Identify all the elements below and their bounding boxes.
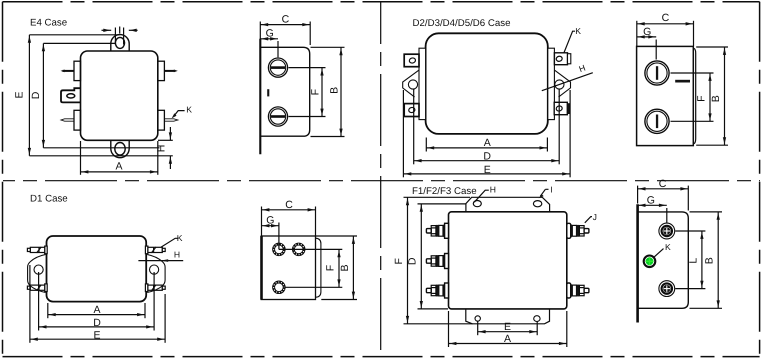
spade terminal top-right (554, 53, 567, 65)
F top flange hole H (473, 201, 481, 207)
right flange hole (555, 80, 564, 89)
F side stud bottom (659, 281, 675, 297)
E extension lines D case (402, 90, 404, 177)
C extension lines (259, 22, 261, 40)
side body outline (693, 48, 695, 144)
svg-text:F1/F2/F3 Case: F1/F2/F3 Case (412, 186, 477, 197)
svg-text:D: D (407, 257, 419, 265)
F side stud top (659, 223, 675, 239)
F bottom flange hole right (534, 316, 540, 322)
B extension lines F side (690, 211, 723, 213)
A extension lines (80, 141, 82, 175)
dimension L F side (701, 231, 703, 289)
D1 right flange (147, 255, 165, 293)
B extension lines (311, 46, 345, 48)
H leader D case (542, 73, 593, 91)
J leader F case (585, 217, 592, 223)
dimension F D1 side (338, 249, 340, 287)
right flange strip (548, 48, 555, 119)
F extension lines D side (671, 72, 714, 74)
dimension H arrows (169, 127, 171, 140)
D1 terminal top-left (27, 246, 47, 254)
dimension D D case (414, 160, 560, 162)
spade terminal bottom-left (404, 104, 419, 117)
extension line E bottom (29, 155, 172, 157)
svg-text:H: H (155, 145, 167, 153)
C extension lines D1 side (261, 207, 263, 236)
dimension F D side (709, 73, 711, 121)
E4 spade connector middle-left (61, 88, 81, 102)
D1 side hole 2 (292, 243, 305, 256)
extension line E top (29, 34, 119, 36)
K leader D case (564, 31, 575, 53)
pin top-right (164, 70, 175, 72)
B extension lines D side (696, 46, 728, 48)
svg-text:B: B (704, 257, 716, 264)
dimension B D side (724, 47, 726, 145)
dimension F F case (407, 197, 409, 323)
C extension lines D side (636, 21, 638, 46)
I leader F case (540, 189, 548, 196)
D1 terminal bottom-left (27, 284, 47, 292)
E extension lines F case (477, 322, 479, 336)
dimension C D side (637, 23, 694, 25)
svg-text:D: D (30, 91, 42, 99)
svg-text:F: F (696, 95, 708, 101)
svg-text:A: A (504, 333, 511, 345)
dimension D F case (420, 204, 422, 309)
dimension G D1 side (262, 225, 279, 227)
E4 terminal top-right (158, 61, 165, 80)
dimension E D case (403, 173, 570, 175)
D extension lines D1 (38, 272, 40, 331)
svg-text:K: K (177, 233, 183, 243)
dimension D D1 (39, 326, 155, 328)
dimension B F side (717, 212, 719, 308)
bolt stud right 290.5 (567, 283, 589, 298)
F side body (638, 212, 689, 308)
D1 side plate (261, 236, 315, 300)
D1 right flange hole (150, 265, 159, 274)
svg-text:C: C (662, 12, 670, 24)
G extension line (277, 41, 279, 57)
bolt stud left 290.5 (426, 283, 448, 298)
G extension line D side (655, 40, 657, 60)
right flange tab (555, 70, 571, 97)
bolt stud right 230.8 (567, 223, 589, 238)
K leader D1 (161, 238, 177, 247)
mark bar D side (675, 80, 690, 83)
E4 terminal bottom-right (158, 110, 165, 130)
E extension lines D1 (29, 265, 31, 343)
D extension lines D case (413, 90, 415, 165)
screw bottom D side (645, 109, 669, 133)
slot width extension lines (114, 28, 116, 45)
small mark bar (267, 89, 269, 96)
svg-text:F: F (393, 258, 405, 264)
dimension A (81, 171, 158, 173)
svg-text:F: F (324, 265, 336, 271)
K leader E4 (172, 113, 177, 118)
svg-text:D: D (93, 317, 101, 329)
dimension G D side (637, 36, 656, 38)
D1 side hole 1 (273, 243, 286, 256)
svg-text:B: B (339, 264, 351, 271)
svg-text:E: E (504, 321, 511, 333)
F top flange hole I (533, 201, 541, 207)
svg-text:F: F (309, 89, 321, 95)
A extension lines D case (425, 138, 427, 152)
svg-text:K: K (575, 26, 581, 36)
dimension B D1 side (352, 236, 354, 300)
svg-text:A: A (115, 160, 122, 172)
G extension line D1 side (278, 223, 280, 250)
left flange hole (408, 80, 417, 89)
dimension D vertical (42, 43, 44, 147)
D1 terminal bottom-right (145, 284, 165, 292)
F extension lines F case (404, 196, 471, 198)
D body (426, 33, 548, 134)
D1 left flange hole (34, 265, 43, 274)
extension line D bottom (43, 147, 159, 149)
H leader D1 (138, 260, 183, 262)
E4 body (81, 51, 158, 140)
dimension A F case (449, 343, 567, 345)
D1 left flange (28, 255, 46, 293)
dimension G F side (638, 204, 667, 206)
K leader F side (654, 249, 664, 258)
F extension lines (289, 67, 326, 69)
B extension lines D1 side (316, 235, 357, 237)
spade hole (67, 94, 75, 98)
E4 bottom ear hole (115, 143, 125, 156)
E4 top mounting ear (111, 35, 129, 51)
screw bottom (268, 107, 287, 126)
F extension lines D1 side (279, 248, 342, 250)
spade terminal top-left (404, 54, 419, 66)
bolt stud left 230.8 (426, 223, 448, 238)
screw top (268, 58, 287, 77)
svg-text:K: K (665, 242, 671, 252)
left flange strip (419, 48, 426, 119)
quadrant divider horizontal (3, 180, 760, 182)
F bottom flange (466, 309, 550, 324)
svg-text:H: H (174, 249, 180, 259)
dimension A D1 (48, 314, 145, 316)
C extension lines F side (637, 186, 639, 204)
side body (260, 47, 309, 136)
svg-text:H: H (490, 184, 496, 194)
extension line D top (43, 42, 115, 44)
F body (449, 212, 567, 309)
A extension lines D1 (47, 303, 49, 318)
E4 top ear hole (115, 37, 124, 48)
svg-text:B: B (710, 95, 722, 102)
svg-text:B: B (329, 87, 341, 94)
svg-text:I: I (550, 184, 552, 194)
svg-text:A: A (484, 137, 491, 149)
dimension E F case (478, 331, 538, 333)
dimension C D1 side (262, 209, 316, 211)
E4 terminal top-left (74, 61, 81, 80)
svg-text:E: E (93, 329, 100, 341)
pin bottom-right hollow (164, 119, 177, 121)
D1 side body outline (316, 238, 321, 297)
slot center tick (119, 27, 121, 34)
svg-text:E: E (484, 164, 491, 176)
dimension C (260, 24, 310, 26)
dimension E D1 (30, 338, 165, 340)
svg-text:A: A (93, 304, 100, 316)
D1 terminal top-right (145, 246, 165, 254)
E4 bottom mounting ear (111, 140, 129, 157)
dimension B (340, 47, 342, 136)
quadrant divider vertical (380, 2, 382, 356)
bolt stud left 261.0 (426, 254, 448, 269)
D extension lines F case (418, 203, 466, 205)
pin top-left (63, 70, 75, 72)
dimension G (260, 38, 278, 40)
svg-text:E4 Case: E4 Case (30, 17, 67, 28)
svg-text:L: L (688, 258, 700, 264)
side plate (637, 46, 694, 145)
F top flange (466, 197, 550, 212)
spade terminal bottom-right (554, 102, 567, 114)
side plate edge (259, 39, 261, 155)
D1 side hole 3 (273, 281, 286, 294)
H leader F case (474, 190, 489, 202)
svg-text:G: G (643, 26, 651, 38)
svg-text:J: J (593, 212, 597, 222)
slot dimension arrows (102, 29, 112, 31)
svg-text:D: D (483, 151, 491, 163)
svg-text:D2/D3/D4/D5/D6 Case: D2/D3/D4/D5/D6 Case (413, 18, 511, 29)
svg-text:G: G (647, 194, 655, 206)
svg-text:D1 Case: D1 Case (30, 194, 68, 205)
L extension lines F side (675, 230, 705, 232)
svg-text:C: C (285, 199, 293, 211)
dimension C F side (638, 188, 689, 190)
screw top D side (645, 61, 669, 85)
dimension F (321, 68, 323, 117)
dimension A D case (426, 147, 547, 149)
svg-text:C: C (282, 14, 290, 26)
svg-text:E: E (14, 91, 26, 98)
H extension line from body bottom (158, 139, 173, 141)
A extension lines F case (448, 311, 450, 347)
G extension line F side (666, 208, 668, 223)
dimension E vertical (28, 35, 30, 156)
F bottom flange hole left (475, 316, 480, 321)
F side ground stud K green (644, 255, 656, 267)
svg-text:G: G (266, 28, 274, 40)
D1 side plate thick left edge (260, 236, 263, 300)
E4 terminal bottom-left (74, 110, 81, 130)
pin bottom-left hollow (61, 119, 74, 121)
svg-text:K: K (186, 105, 192, 115)
svg-text:G: G (266, 215, 274, 227)
D1 body (47, 236, 147, 302)
left flange tab (403, 70, 419, 97)
F side plate edge (636, 204, 639, 322)
svg-text:C: C (659, 178, 667, 190)
